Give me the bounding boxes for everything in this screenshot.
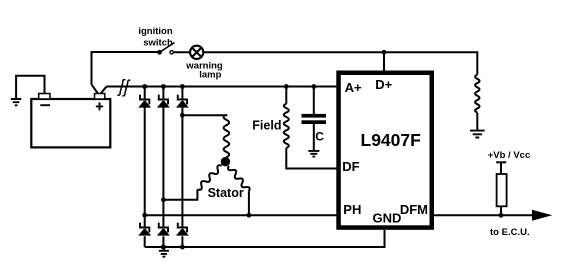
svg-text:GND: GND bbox=[373, 211, 402, 226]
svg-text:to E.C.U.: to E.C.U. bbox=[490, 227, 530, 238]
svg-text:A+: A+ bbox=[345, 80, 362, 95]
svg-text:L9407F: L9407F bbox=[361, 130, 422, 150]
svg-text:DFM: DFM bbox=[400, 202, 428, 217]
svg-text:+Vb / Vcc: +Vb / Vcc bbox=[488, 150, 531, 161]
svg-text:C: C bbox=[315, 129, 324, 143]
svg-text:Stator: Stator bbox=[208, 186, 244, 200]
svg-text:DF: DF bbox=[342, 159, 359, 174]
svg-text:Field: Field bbox=[252, 119, 281, 133]
svg-text:lamp: lamp bbox=[199, 70, 221, 81]
svg-text:PH: PH bbox=[343, 202, 361, 217]
svg-text:D+: D+ bbox=[375, 77, 392, 92]
svg-text:switch: switch bbox=[143, 38, 173, 49]
svg-text:ignition: ignition bbox=[138, 26, 172, 37]
